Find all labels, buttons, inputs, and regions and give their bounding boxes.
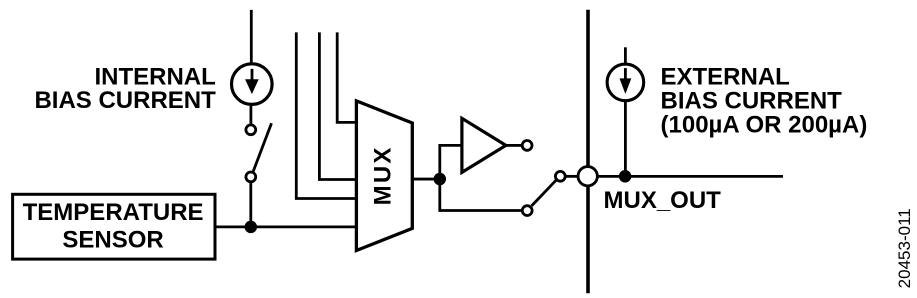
svg-text:BIAS CURRENT: BIAS CURRENT [34, 87, 216, 114]
svg-text:MUX: MUX [370, 145, 397, 205]
svg-text:BIAS CURRENT: BIAS CURRENT [661, 87, 843, 114]
svg-text:(100µA OR 200µA): (100µA OR 200µA) [661, 112, 868, 139]
svg-text:MUX_OUT: MUX_OUT [604, 187, 722, 214]
svg-text:TEMPERATURE: TEMPERATURE [23, 199, 204, 226]
svg-text:SENSOR: SENSOR [62, 226, 163, 253]
svg-text:20453-011: 20453-011 [895, 208, 914, 288]
